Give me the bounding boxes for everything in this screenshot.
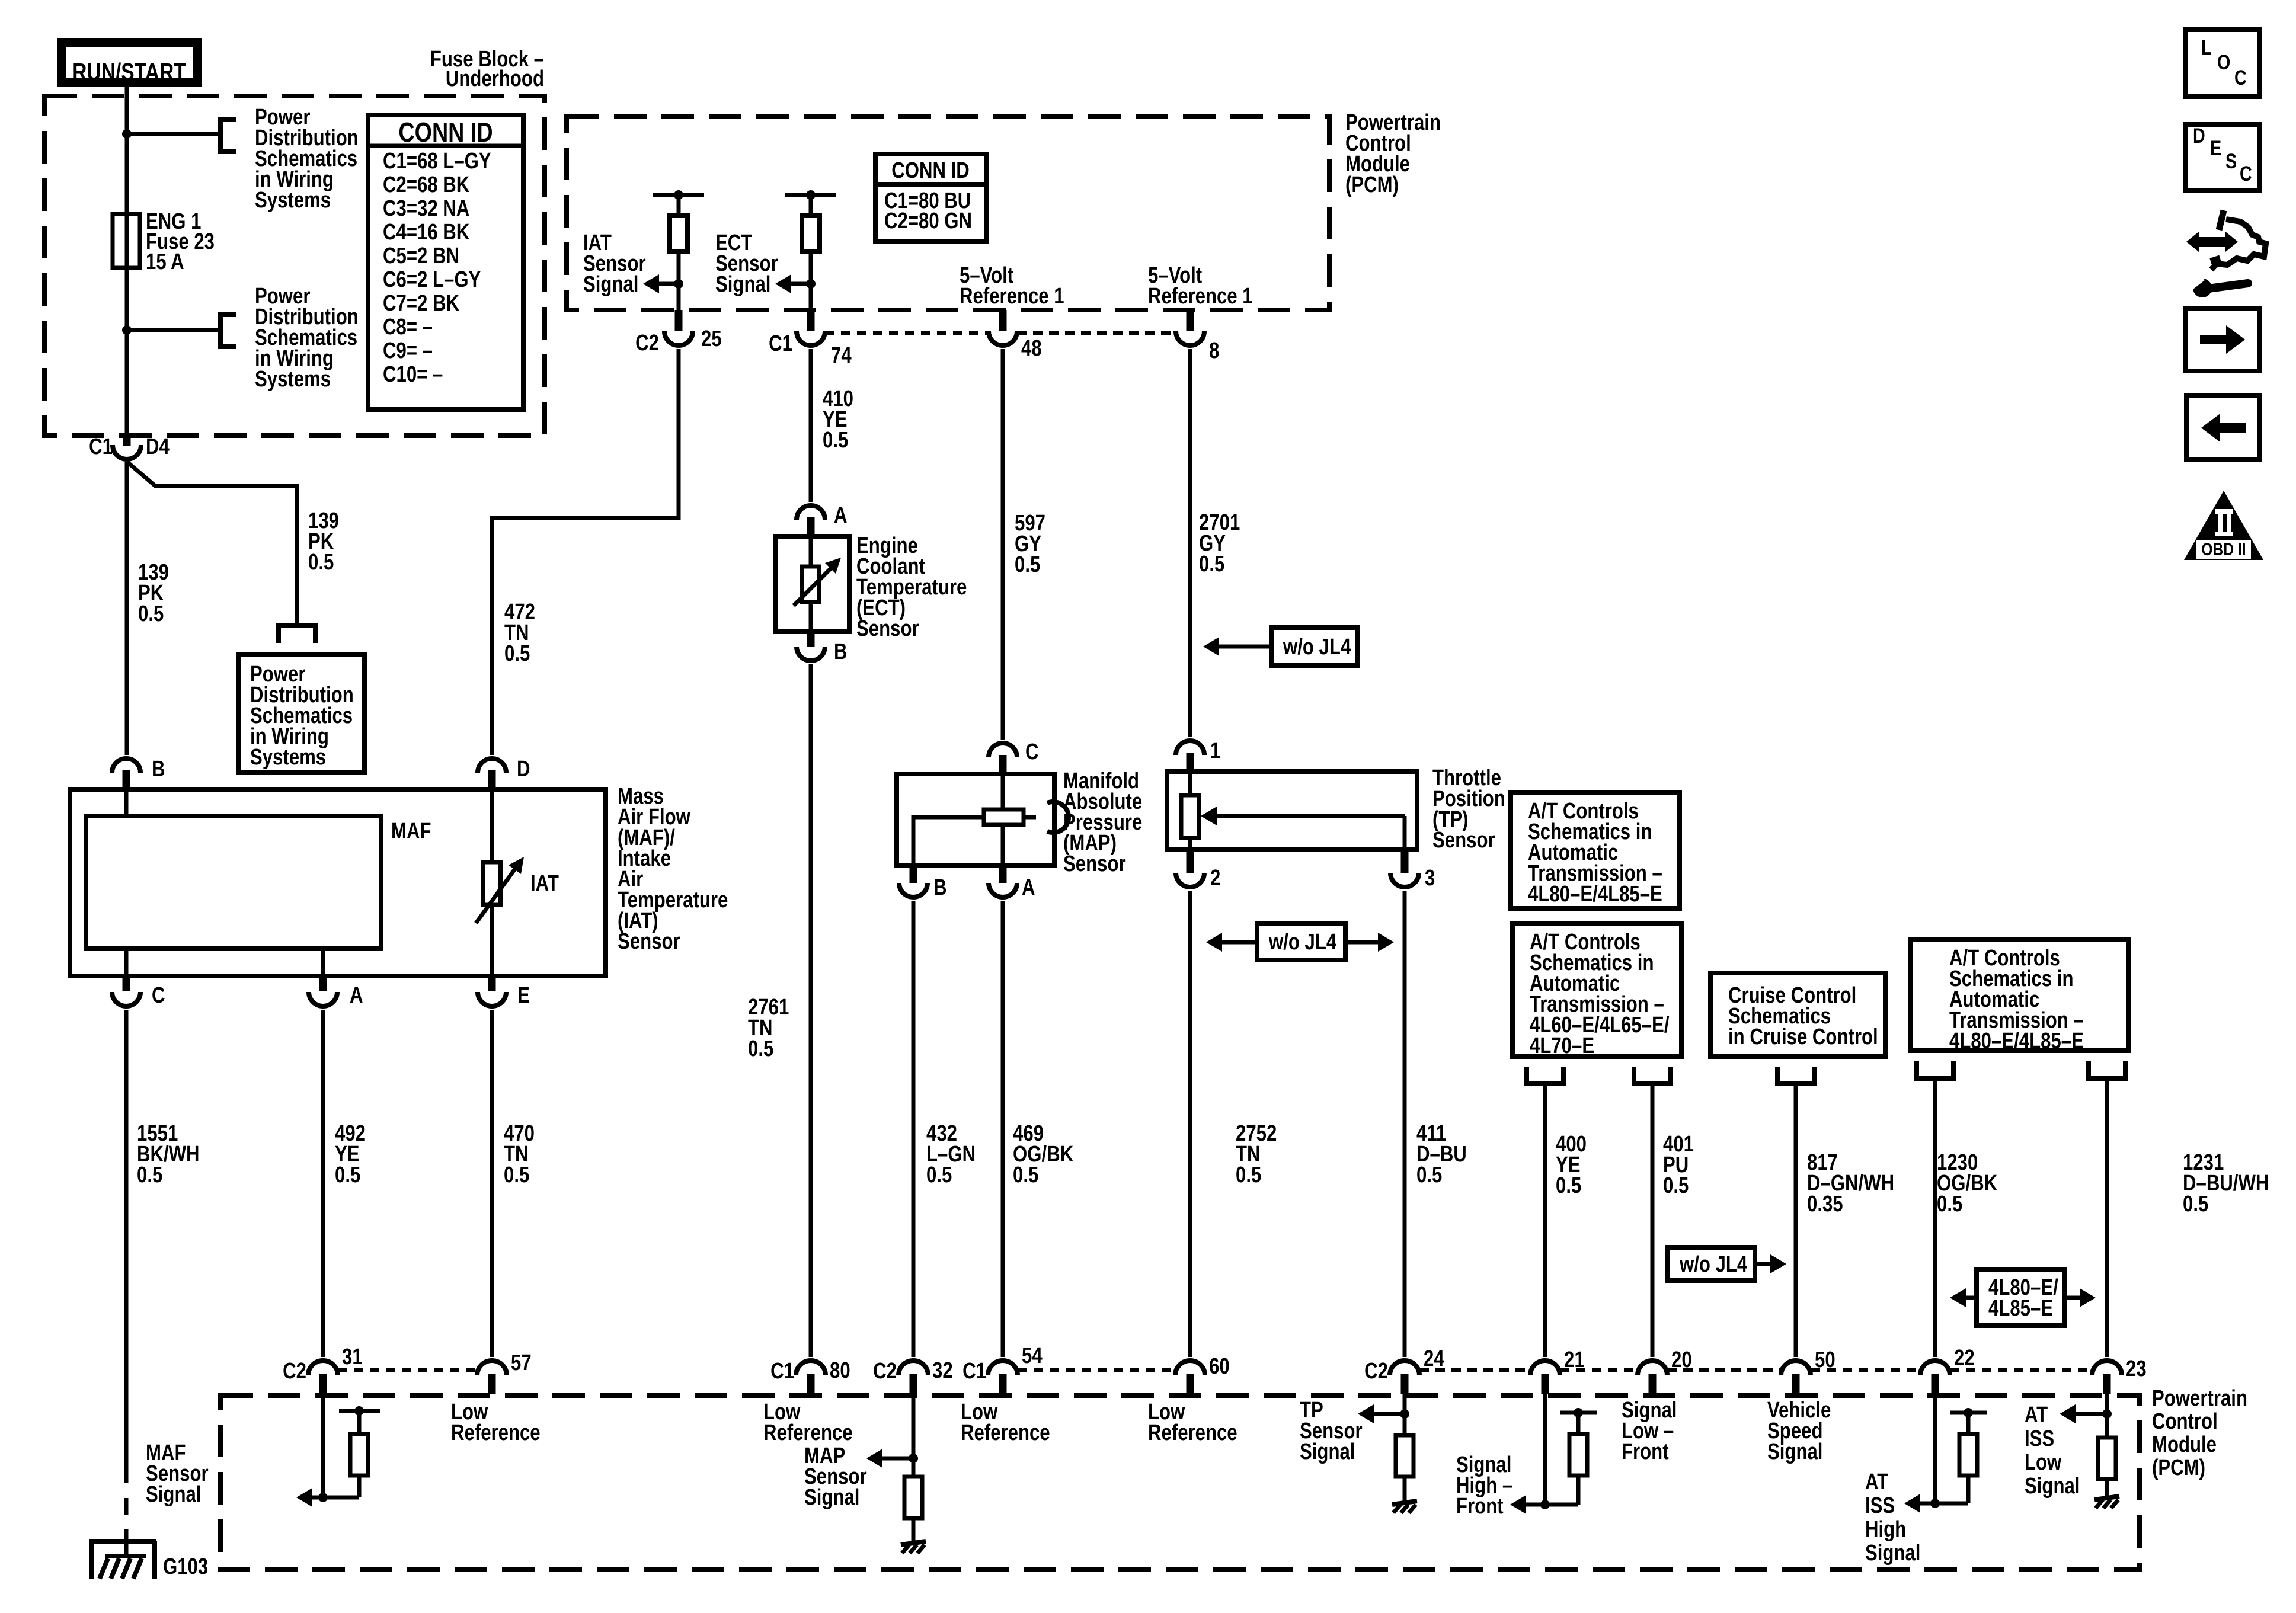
svg-text:0.5: 0.5 bbox=[1937, 1192, 1962, 1217]
svg-text:Reference: Reference bbox=[763, 1420, 853, 1445]
wire break dash bbox=[124, 1498, 129, 1515]
TP signal arrow bbox=[1373, 1412, 1405, 1416]
wire from RUN/START into fuse block bbox=[125, 87, 129, 134]
AT ISS low load resistor bbox=[2098, 1438, 2116, 1479]
svg-text:AT: AT bbox=[2025, 1403, 2048, 1428]
AT ISS low wire inside PCM bbox=[2105, 1394, 2109, 1438]
switch RUN/START bbox=[57, 38, 202, 87]
signal high arrow bbox=[1510, 1495, 1526, 1514]
svg-text:D4: D4 bbox=[146, 434, 170, 459]
TP sensor box bbox=[1167, 772, 1417, 849]
fuse block - underhood dashed box bbox=[44, 96, 545, 436]
svg-text:Signal: Signal bbox=[583, 272, 638, 297]
CONN ID table PCM bbox=[875, 154, 987, 241]
svg-text:0.5: 0.5 bbox=[1013, 1163, 1038, 1188]
svg-text:0.5: 0.5 bbox=[1236, 1163, 1261, 1188]
svg-text:0.5: 0.5 bbox=[1015, 552, 1040, 577]
wire 472 TN from C2 25 to MAF D bbox=[492, 349, 679, 755]
svg-text:w/o JL4: w/o JL4 bbox=[1679, 1252, 1748, 1277]
ECT sensor box bbox=[775, 536, 849, 632]
svg-text:Control: Control bbox=[2152, 1409, 2218, 1434]
wire 2752 TN bbox=[1188, 891, 1192, 1357]
svg-text:80: 80 bbox=[830, 1358, 850, 1383]
svg-text:E: E bbox=[517, 983, 530, 1008]
icon LOC box bbox=[2185, 30, 2260, 97]
svg-text:S: S bbox=[2225, 149, 2237, 172]
svg-text:Reference 1: Reference 1 bbox=[1148, 284, 1253, 309]
AT ISS high pull-up resistor bbox=[1966, 1413, 1971, 1434]
signal high pull-up supply bar bbox=[1560, 1411, 1597, 1415]
wire 2761 TN bbox=[809, 664, 813, 1357]
svg-text:Sensor: Sensor bbox=[618, 929, 680, 954]
svg-text:B: B bbox=[933, 875, 947, 900]
svg-text:0.5: 0.5 bbox=[137, 1163, 162, 1188]
MAF pull-up resistor bbox=[357, 1411, 362, 1434]
svg-text:Signal: Signal bbox=[1865, 1541, 1920, 1566]
svg-text:Reference 1: Reference 1 bbox=[960, 284, 1064, 309]
w/o JL4 arrow 2 right bbox=[1345, 940, 1379, 945]
dotted connector line 48 to 8 bbox=[1017, 331, 1176, 335]
wire 1231 D-BU/WH bbox=[2105, 1078, 2109, 1357]
w/o JL4 box 2 bbox=[1257, 924, 1345, 960]
wire branch to power distribution 1 bbox=[127, 132, 220, 136]
svg-text:AT: AT bbox=[1865, 1470, 1888, 1494]
connector C of MAF sensor bbox=[123, 976, 130, 991]
wire 1230 OG/BK bbox=[1933, 1078, 1937, 1357]
reference box A/T controls 4L80-E/4L85-E upper bbox=[1511, 792, 1680, 908]
IAT thermistor wire bottom bbox=[490, 905, 494, 976]
svg-text:Front: Front bbox=[1622, 1439, 1669, 1464]
pin 57 of PCM bbox=[488, 1374, 496, 1394]
icon back arrow box bbox=[2186, 396, 2260, 460]
svg-text:C: C bbox=[2234, 66, 2247, 89]
svg-text:C2: C2 bbox=[635, 331, 659, 356]
svg-text:57: 57 bbox=[511, 1350, 532, 1375]
svg-text:0.5: 0.5 bbox=[504, 641, 530, 666]
wire 2701 GY from 8 to TP 1 bbox=[1188, 349, 1192, 737]
svg-text:C1: C1 bbox=[769, 331, 792, 356]
svg-text:32: 32 bbox=[932, 1358, 953, 1383]
dotted connector line 20 to 50 bbox=[1667, 1368, 1781, 1372]
connector B of ECT sensor bbox=[807, 632, 815, 647]
MAP transducer resistor bbox=[984, 809, 1024, 825]
MAF signal arrow bbox=[312, 1496, 323, 1500]
pin C1 74 of PCM bbox=[807, 310, 815, 331]
MAP signal junction bbox=[909, 1454, 918, 1463]
svg-text:Systems: Systems bbox=[255, 188, 331, 213]
svg-text:w/o JL4: w/o JL4 bbox=[1268, 930, 1337, 955]
connector D of MAF sensor bbox=[478, 759, 506, 773]
pin 8 of PCM bbox=[1187, 310, 1194, 331]
pin 50 of PCM bbox=[1792, 1374, 1800, 1394]
wire 1551 BK/WH bbox=[124, 1010, 129, 1483]
ECT signal junction bbox=[806, 279, 816, 289]
svg-text:E: E bbox=[2210, 136, 2221, 159]
svg-text:31: 31 bbox=[342, 1345, 363, 1369]
svg-text:24: 24 bbox=[1424, 1346, 1444, 1371]
connector 3 of TP sensor bbox=[1401, 849, 1409, 873]
AT ISS high wire inside PCM bbox=[1933, 1394, 1937, 1503]
svg-text:CONN ID: CONN ID bbox=[398, 117, 493, 147]
svg-text:0.5: 0.5 bbox=[1663, 1173, 1689, 1198]
pin C2 31 of PCM bbox=[319, 1374, 327, 1394]
svg-text:L: L bbox=[2201, 36, 2212, 59]
svg-text:Signal: Signal bbox=[1300, 1439, 1355, 1464]
connector A of MAP sensor bbox=[999, 866, 1007, 883]
connector E of MAF sensor bbox=[488, 976, 496, 991]
wire 492 YE bbox=[321, 1010, 325, 1357]
wire 470 TN bbox=[490, 1010, 494, 1357]
svg-text:Sensor: Sensor bbox=[1063, 852, 1126, 876]
svg-text:Systems: Systems bbox=[250, 745, 326, 770]
svg-text:0.5: 0.5 bbox=[1199, 552, 1224, 577]
wire IAT to C2 25 bbox=[677, 284, 681, 312]
wire 411 D-BU bbox=[1403, 891, 1407, 1357]
icon OBD II triangle bbox=[2184, 491, 2263, 560]
AT ISS low junction bbox=[2102, 1409, 2112, 1419]
svg-text:4L80–E/4L85–E: 4L80–E/4L85–E bbox=[1528, 882, 1662, 907]
svg-text:in Cruise Control: in Cruise Control bbox=[1728, 1025, 1878, 1049]
svg-text:C7=2 BK: C7=2 BK bbox=[383, 291, 459, 316]
wire B to MAF inner bbox=[124, 789, 129, 816]
svg-text:Reference: Reference bbox=[961, 1420, 1050, 1445]
svg-text:C3=32 NA: C3=32 NA bbox=[383, 196, 469, 221]
dotted connector line 50 to 22 bbox=[1811, 1368, 1920, 1372]
IAT thermistor wire top bbox=[490, 789, 494, 862]
IAT signal arrow bbox=[655, 282, 679, 286]
svg-text:C2=68 BK: C2=68 BK bbox=[383, 172, 469, 197]
AT ISS high pull-up supply bar bbox=[1950, 1411, 1987, 1415]
svg-text:D: D bbox=[2193, 124, 2205, 147]
svg-text:0.5: 0.5 bbox=[308, 550, 334, 575]
svg-text:0.5: 0.5 bbox=[504, 1163, 529, 1188]
svg-text:C8= –: C8= – bbox=[383, 315, 433, 340]
svg-text:OBD II: OBD II bbox=[2201, 539, 2246, 559]
svg-text:0.5: 0.5 bbox=[335, 1163, 360, 1188]
connector B of MAP sensor bbox=[910, 866, 917, 883]
TP ground bbox=[1392, 1501, 1417, 1505]
svg-text:G103: G103 bbox=[163, 1554, 208, 1579]
svg-text:C1: C1 bbox=[962, 1359, 986, 1384]
powertrain control module dashed box top bbox=[567, 116, 1329, 310]
wire 432 L-GN bbox=[912, 901, 916, 1357]
svg-text:CONN ID: CONN ID bbox=[891, 158, 970, 183]
svg-text:A: A bbox=[350, 983, 363, 1008]
reference box A/T controls 4L80-E/4L85-E right bbox=[1910, 939, 2129, 1051]
connector 1 of TP sensor bbox=[1176, 741, 1204, 755]
pin 20 of PCM bbox=[1649, 1374, 1657, 1394]
MAP pressure port arc bbox=[1024, 815, 1036, 820]
wire 410 YE from C1 74 to ECT A bbox=[809, 349, 813, 502]
svg-text:C6=2 L–GY: C6=2 L–GY bbox=[383, 267, 481, 292]
off-page connector to power distribution 2 bbox=[218, 312, 223, 349]
wire 401 PU bbox=[1651, 1084, 1655, 1357]
off-page connector to power distribution 1 bbox=[218, 117, 223, 154]
svg-text:0.5: 0.5 bbox=[1556, 1173, 1581, 1198]
pin 48 of PCM bbox=[999, 310, 1007, 331]
svg-text:74: 74 bbox=[831, 343, 852, 368]
svg-text:0.5: 0.5 bbox=[138, 601, 164, 626]
svg-text:C9= –: C9= – bbox=[383, 338, 433, 363]
MAP signal wire inside PCM bbox=[912, 1394, 916, 1477]
ECT pull-up supply bar bbox=[785, 193, 836, 197]
connector A of ECT sensor bbox=[797, 505, 825, 520]
tag arrow right bbox=[2064, 1296, 2080, 1300]
MAP sensor box bbox=[897, 774, 1054, 866]
connector C of MAP sensor bbox=[989, 743, 1017, 757]
svg-text:Systems: Systems bbox=[255, 367, 331, 392]
w/o JL4 arrow 2 left bbox=[1221, 940, 1257, 945]
svg-text:C1: C1 bbox=[89, 434, 113, 459]
svg-text:2: 2 bbox=[1210, 866, 1220, 891]
svg-text:O: O bbox=[2217, 50, 2230, 73]
ECT thermistor arrow bbox=[794, 567, 832, 606]
svg-text:A: A bbox=[834, 503, 848, 528]
svg-text:B: B bbox=[152, 757, 165, 782]
IAT thermistor arrow bbox=[476, 866, 517, 923]
MAP signal arrow bbox=[882, 1457, 913, 1461]
svg-text:Signal: Signal bbox=[1767, 1439, 1822, 1464]
junction bbox=[122, 129, 132, 139]
pin C2 24 of PCM bbox=[1401, 1374, 1409, 1394]
w/o JL4 box 3 bbox=[1668, 1247, 1755, 1281]
svg-text:54: 54 bbox=[1022, 1343, 1043, 1368]
ground G103 bbox=[89, 1539, 156, 1544]
pin C1 54 of PCM bbox=[999, 1374, 1007, 1394]
AT ISS low ground bbox=[2094, 1496, 2119, 1500]
staple connector 401 wire bbox=[1632, 1081, 1673, 1086]
svg-text:Signal: Signal bbox=[2025, 1474, 2080, 1499]
TP signal junction bbox=[1400, 1409, 1409, 1419]
reference box A/T controls 4L60-E bbox=[1512, 924, 1681, 1057]
icon forward arrow box bbox=[2186, 309, 2260, 371]
staple connector into power distribution box bbox=[276, 623, 318, 628]
w/o JL4 arrow 1 bbox=[1219, 645, 1271, 649]
TP signal wire inside PCM bbox=[1403, 1394, 1407, 1435]
staple connector 817 wire bbox=[1775, 1081, 1817, 1086]
svg-text:Low: Low bbox=[2025, 1450, 2062, 1475]
svg-text:25: 25 bbox=[701, 327, 722, 351]
pin C1 80 of PCM bbox=[807, 1374, 815, 1394]
wire to connector C1 D4 bbox=[125, 330, 129, 436]
pin 22 of PCM bbox=[1932, 1374, 1939, 1394]
IAT pull-up supply bar bbox=[653, 193, 704, 197]
TP potentiometer bbox=[1188, 772, 1192, 795]
svg-text:(PCM): (PCM) bbox=[2152, 1455, 2205, 1480]
svg-text:ISS: ISS bbox=[1865, 1493, 1895, 1518]
wire junction to fuse bbox=[125, 134, 129, 330]
svg-text:48: 48 bbox=[1021, 336, 1042, 361]
IAT pull-up resistor bbox=[677, 195, 681, 216]
svg-text:Module: Module bbox=[2152, 1432, 2217, 1457]
svg-text:D: D bbox=[517, 757, 530, 782]
IAT signal junction bbox=[674, 279, 683, 289]
svg-text:Powertrain: Powertrain bbox=[2152, 1386, 2247, 1411]
svg-text:Sensor: Sensor bbox=[856, 616, 919, 641]
wire 139 PK diagonal branch bbox=[127, 462, 297, 623]
wire MAF inner to C bbox=[124, 949, 129, 976]
svg-text:A: A bbox=[1022, 875, 1035, 900]
ECT thermistor bbox=[809, 536, 813, 567]
fuse ENG 1 Fuse 23 15 A bbox=[113, 214, 140, 268]
wire 400 YE bbox=[1543, 1084, 1547, 1357]
MAP load resistor bbox=[904, 1477, 922, 1518]
svg-text:4L85–E: 4L85–E bbox=[1988, 1296, 2053, 1321]
svg-text:3: 3 bbox=[1425, 866, 1435, 891]
wire MAF inner to A bbox=[321, 949, 325, 976]
dotted connector line 31 to 57 bbox=[338, 1368, 477, 1372]
svg-text:ISS: ISS bbox=[2025, 1426, 2054, 1451]
w/o JL4 box 1 bbox=[1271, 628, 1358, 665]
connector C1 D4 bbox=[123, 433, 131, 446]
svg-text:8: 8 bbox=[1209, 338, 1219, 363]
svg-text:C: C bbox=[152, 983, 165, 1008]
staple connector 1231 wire bbox=[2086, 1076, 2128, 1081]
svg-text:C: C bbox=[1025, 740, 1039, 764]
reference box cruise control bbox=[1710, 973, 1885, 1057]
svg-text:Signal: Signal bbox=[715, 272, 770, 297]
wire branch to power distribution 2 bbox=[127, 328, 220, 332]
TP wiper arrow bbox=[1213, 814, 1405, 818]
svg-text:w/o JL4: w/o JL4 bbox=[1283, 635, 1351, 660]
4L80-E/4L85-E tag box bbox=[1977, 1269, 2064, 1326]
pin C2 25 of PCM bbox=[675, 310, 683, 331]
svg-text:High: High bbox=[1865, 1517, 1906, 1542]
svg-text:0.5: 0.5 bbox=[2183, 1192, 2208, 1217]
MAF inner box bbox=[86, 816, 381, 949]
svg-text:0.35: 0.35 bbox=[1807, 1192, 1843, 1217]
icon DESC box bbox=[2186, 124, 2260, 190]
w/o JL4 arrow 3 bbox=[1755, 1262, 1771, 1266]
pin 21 of PCM bbox=[1542, 1374, 1549, 1394]
staple connector 400 wire bbox=[1524, 1081, 1566, 1086]
svg-text:C1=68 L–GY: C1=68 L–GY bbox=[383, 149, 491, 174]
svg-text:Signal: Signal bbox=[804, 1485, 859, 1510]
svg-text:(PCM): (PCM) bbox=[1345, 172, 1399, 197]
MAF signal junction bbox=[318, 1493, 328, 1502]
svg-text:4L70–E: 4L70–E bbox=[1530, 1033, 1594, 1058]
svg-text:B: B bbox=[834, 639, 848, 664]
svg-text:Signal: Signal bbox=[146, 1482, 201, 1507]
svg-text:22: 22 bbox=[1954, 1346, 1975, 1371]
pin 23 of PCM bbox=[2103, 1374, 2111, 1394]
AT ISS high arrow bbox=[1904, 1494, 1920, 1513]
svg-text:0.5: 0.5 bbox=[748, 1036, 773, 1061]
svg-text:23: 23 bbox=[2126, 1356, 2147, 1381]
svg-text:C2: C2 bbox=[283, 1359, 306, 1384]
connector B of MAF sensor bbox=[112, 759, 140, 773]
pin C2 32 of PCM bbox=[910, 1374, 917, 1394]
IAT thermistor bbox=[484, 862, 501, 905]
MAF signal wire inside PCM bbox=[321, 1394, 325, 1497]
ECT signal arrow bbox=[787, 282, 811, 286]
svg-text:Front: Front bbox=[1456, 1494, 1504, 1519]
wire 469 OG/BK bbox=[1001, 901, 1005, 1357]
connector 2 of TP sensor bbox=[1187, 849, 1194, 873]
MAP ground bbox=[901, 1541, 926, 1545]
svg-text:C4=16 BK: C4=16 BK bbox=[383, 220, 469, 245]
svg-text:1: 1 bbox=[1210, 738, 1220, 763]
icon vehicle with arrow and wrench bbox=[2196, 237, 2228, 247]
pin 60 of PCM bbox=[1187, 1374, 1194, 1394]
svg-text:C2: C2 bbox=[873, 1359, 897, 1384]
svg-text:RUN/START: RUN/START bbox=[72, 58, 186, 85]
svg-text:Underhood: Underhood bbox=[446, 66, 544, 91]
dotted connector line 74 to 48 bbox=[825, 331, 989, 335]
junction bbox=[122, 325, 132, 335]
svg-text:C2: C2 bbox=[1364, 1359, 1388, 1384]
MAP internal branch to B bbox=[913, 817, 984, 866]
svg-text:MAF: MAF bbox=[391, 819, 431, 844]
signal high pull-up resistor bbox=[1576, 1413, 1581, 1434]
TP load resistor bbox=[1396, 1435, 1414, 1477]
dotted connector line 21 to 20 bbox=[1560, 1368, 1638, 1372]
CONN ID table fuse block bbox=[368, 115, 523, 409]
MAF pull-up supply bar bbox=[339, 1409, 380, 1413]
wire ECT to C1 74 bbox=[809, 284, 813, 312]
MAP internal wire bbox=[1001, 774, 1005, 809]
svg-text:C2=80 GN: C2=80 GN bbox=[884, 209, 972, 233]
dotted connector line 54 to 60 bbox=[1018, 1368, 1175, 1372]
wire 597 GY from 48 to MAP C bbox=[1001, 349, 1005, 740]
svg-text:60: 60 bbox=[1209, 1354, 1230, 1379]
power distribution reference box bbox=[238, 655, 364, 772]
signal high wire inside PCM bbox=[1543, 1394, 1547, 1505]
dotted connector line 22 to 23 bbox=[1950, 1368, 2092, 1372]
powertrain control module dashed box bottom bbox=[220, 1396, 2140, 1570]
svg-text:0.5: 0.5 bbox=[926, 1163, 952, 1188]
wire 817 D-GN/WH bbox=[1794, 1084, 1798, 1357]
svg-text:C10= –: C10= – bbox=[383, 362, 443, 387]
tag arrow left bbox=[1965, 1296, 1977, 1300]
wire 139 PK to MAF B bbox=[125, 462, 129, 755]
svg-text:0.5: 0.5 bbox=[1416, 1163, 1442, 1188]
signal high junction bbox=[1540, 1500, 1550, 1509]
svg-text:IAT: IAT bbox=[530, 871, 559, 896]
svg-text:Reference: Reference bbox=[451, 1420, 541, 1445]
svg-text:0.5: 0.5 bbox=[823, 428, 848, 453]
ECT pull-up resistor bbox=[809, 195, 813, 216]
AT ISS low arrow bbox=[2075, 1412, 2107, 1416]
staple connector 1230 wire bbox=[1914, 1076, 1956, 1081]
svg-text:15 A: 15 A bbox=[146, 249, 184, 274]
svg-text:C1: C1 bbox=[770, 1359, 794, 1384]
MAF IAT sensor outer box bbox=[70, 789, 606, 976]
svg-text:C: C bbox=[2240, 162, 2252, 185]
svg-text:4L80–E/4L85–E: 4L80–E/4L85–E bbox=[1949, 1029, 2084, 1054]
connector A of MAF sensor bbox=[319, 976, 327, 991]
svg-text:Sensor: Sensor bbox=[1432, 828, 1495, 853]
svg-text:Reference: Reference bbox=[1148, 1420, 1237, 1445]
svg-text:C5=2 BN: C5=2 BN bbox=[383, 244, 459, 268]
AT ISS high junction bbox=[1930, 1499, 1940, 1508]
dotted connector line 24 to 21 bbox=[1419, 1368, 1530, 1372]
